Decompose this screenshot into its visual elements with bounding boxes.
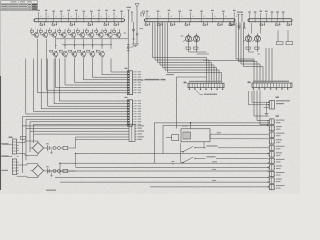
wire fan row drivers to connector J1: [38, 39, 128, 93]
junction dots bottom lines: [59, 153, 174, 175]
labels on distribution lines: [212, 161, 217, 181]
wire J3 to bridge BR2: [19, 164, 38, 178]
bridge rectifier BR1: [31, 141, 46, 155]
connector J2 designator: [125, 97, 128, 98]
wire +6V distribution long line: [163, 125, 269, 154]
diode CR40 capacitor C40 between bus B2 and B3: [237, 12, 246, 31]
wire bottom distribution lines: [48, 153, 269, 187]
part number label bottom left: [46, 190, 56, 191]
scan paper noise background: [0, 0, 1, 1]
callout arrow to last driver board: [133, 79, 166, 81]
pull-up resistor cells below bus B3: [230, 22, 292, 26]
resistor R5 at relay: [166, 135, 179, 141]
label +6VDC switched: [207, 156, 216, 157]
wire supply lines J8 risers to J2: [22, 117, 127, 135]
wire nest group1 to thyristor group 2: [203, 59, 254, 61]
wire relay to +24V line: [190, 122, 191, 128]
relay contact switch S1: [181, 143, 206, 152]
callout label under J4: [196, 91, 217, 95]
wire BR1 output run: [45, 147, 47, 149]
pull-up resistor cells below bus B1: [40, 22, 119, 26]
wire thyristor group1 outputs: [189, 23, 261, 54]
bus bar B2 lamp strobe bus right: [145, 19, 236, 22]
label +24VDC switched: [207, 145, 218, 146]
thyristors Q18 Q19 with gate resistors: [243, 33, 261, 49]
wire lower J8 pins: [76, 137, 130, 148]
bus B2 input pin stubs with pin labels: [146, 10, 237, 23]
wire BR2 output run: [45, 170, 47, 172]
wire nest thyristor group2 to connector J5: [236, 22, 293, 83]
connector J2 lamp driver output: [126, 100, 141, 126]
wire bridge outputs to connector J8: [22, 126, 129, 173]
relay contact switch S2: [181, 152, 206, 164]
wire fan row drivers to connector J2: [26, 61, 128, 114]
title block revision table: [1, 1, 38, 11]
connector J8 power output: [129, 124, 144, 141]
off-board arrow symbol node VCC: [135, 4, 139, 22]
bus bar B3 solenoid bus: [248, 19, 292, 22]
lamp driver transistors Q8-Q13 row 2: [50, 45, 105, 57]
wire J3 to bridge BR1: [19, 141, 38, 155]
wire row1 emitter rail to J1 column: [55, 39, 128, 45]
connector J6 main harness: [269, 115, 285, 189]
fuse F1 holder box: [21, 136, 26, 139]
thyristors Q16 Q17 with gate resistors: [181, 33, 200, 49]
bus B3 input pin stubs with pin labels: [248, 11, 284, 23]
connector J1 designator: [125, 68, 128, 69]
zener diode CR21 column at connector feed: [127, 22, 134, 71]
filter capacitor C2 and resistors R3 R4: [46, 166, 75, 176]
diode CR20 and capacitor C20 between buses: [127, 7, 145, 47]
wire nest thyristor group1 to connector J4: [153, 22, 222, 83]
relay K1 coil box: [181, 125, 269, 142]
page edge shadow left: [0, 10, 2, 190]
connector J3 transformer input: [1, 137, 19, 177]
connector J4 solenoid header: [184, 81, 225, 90]
bus bar B1 lamp strobe bus: [34, 19, 125, 22]
bridge rectifier BR2: [31, 164, 46, 178]
pull-up resistor cells below bus B2: [145, 22, 234, 26]
wire J4 area to connector J6 upper pins: [254, 91, 269, 126]
connector J5 solenoid header: [248, 81, 293, 90]
wire switched outputs to J6: [216, 148, 269, 159]
lamp driver transistors Q1-Q10 row 1: [30, 28, 126, 38]
wire J4 callout drop to relay: [177, 77, 207, 129]
connector J7 sound board: [249, 91, 291, 116]
connector J1 lamp driver output: [126, 71, 141, 95]
wire relay to contact: [204, 142, 206, 148]
filter capacitor C1 and resistors R1 R2: [46, 143, 75, 153]
wire fan vertical tops: [26, 39, 102, 61]
bus B1 input pin stubs with pin labels: [37, 10, 124, 23]
wire +24V distribution long line: [154, 122, 268, 163]
